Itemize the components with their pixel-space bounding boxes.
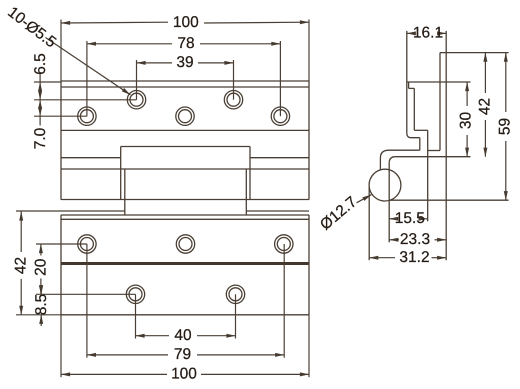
- svg-text:79: 79: [174, 346, 191, 363]
- svg-text:16.1: 16.1: [413, 25, 443, 42]
- svg-text:10-Ø5.5: 10-Ø5.5: [4, 4, 59, 52]
- svg-text:100: 100: [171, 366, 197, 383]
- svg-text:Ø12.7: Ø12.7: [317, 193, 360, 233]
- svg-text:30: 30: [458, 112, 475, 130]
- svg-text:31.2: 31.2: [399, 249, 429, 266]
- svg-text:59: 59: [496, 118, 513, 135]
- svg-text:39: 39: [176, 54, 193, 71]
- svg-text:100: 100: [173, 14, 199, 31]
- svg-text:7.0: 7.0: [32, 127, 49, 149]
- svg-text:8.5: 8.5: [33, 294, 50, 316]
- svg-text:78: 78: [177, 35, 194, 52]
- svg-text:15.5: 15.5: [395, 210, 425, 227]
- svg-text:23.3: 23.3: [400, 231, 430, 248]
- svg-text:42: 42: [13, 257, 30, 274]
- svg-text:42: 42: [477, 98, 494, 115]
- svg-text:20: 20: [33, 258, 50, 276]
- svg-text:6.5: 6.5: [32, 53, 49, 75]
- svg-text:40: 40: [174, 327, 192, 344]
